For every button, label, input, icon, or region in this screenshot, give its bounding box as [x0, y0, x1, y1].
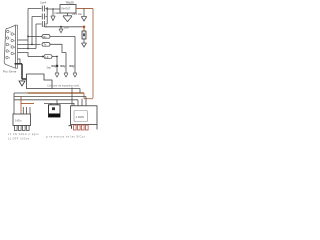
node dot at x53: [52, 8, 54, 10]
wire y88.5 extension: [52, 88, 80, 90]
display DS1 teeth (red): [74, 125, 89, 130]
svg-text:Pto·Serie: Pto·Serie: [3, 70, 17, 74]
connector X1 pin numbers: [9, 31, 16, 59]
resistor R1 lead (brown): [83, 27, 85, 31]
net tag wire row C: [28, 56, 44, 58]
wire DB9 pin row D jog: [18, 53, 29, 57]
wire thick gnd wire vertical: [21, 64, 23, 79]
ground under R1: [82, 43, 87, 47]
capacitor C1: [28, 6, 47, 12]
node brown junction dot: [83, 26, 86, 29]
ground arrow 3: [73, 73, 77, 77]
wire regulator output 5V (brown): [76, 8, 93, 10]
SW glyph: [52, 107, 55, 110]
component SW black box: [49, 105, 61, 117]
wire ground bus y27: [45, 26, 84, 28]
wire dark bus D1: [14, 92, 28, 94]
wire vertical drop 3: [74, 36, 76, 72]
node dot row A tag takeoff: [27, 36, 29, 38]
ground cap bank: [51, 16, 55, 21]
wire dark bus D3: [14, 99, 78, 101]
wire regulator input net: [47, 8, 60, 10]
regulator ground pin wire: [67, 13, 69, 16]
wire cap right plates join vertical: [46, 7, 48, 24]
wire x72 vertical to box2: [71, 88, 73, 106]
SW bottom band: [49, 114, 61, 118]
svg-text:14Dx: 14Dx: [15, 119, 22, 123]
node junction dot on y27: [60, 26, 62, 28]
wire DB9 pin row C: [18, 48, 37, 50]
display DS1 left step wire: [69, 126, 72, 129]
wire vertical drop 2: [65, 53, 67, 73]
op-amp regulator box U1: [60, 5, 76, 14]
net tag RXD: [42, 35, 50, 39]
ground arrow 1: [55, 73, 59, 77]
wire stub x80: [79, 89, 81, 94]
svg-text:g ne marcos de las SfCxx: g ne marcos de las SfCxx: [46, 135, 86, 138]
svg-text:Cym4: Cym4: [40, 1, 47, 4]
svg-text:1.R2W: 1.R2W: [76, 115, 85, 119]
svg-text:IN•OUT: IN•OUT: [62, 7, 71, 11]
display DS1 right edge drop: [96, 125, 98, 130]
net tag wire row A: [28, 35, 42, 37]
display box DS1 pins: [78, 97, 86, 106]
net tag TXD: [42, 43, 50, 47]
connector J1 pin stub 1 (brown): [20, 103, 22, 114]
display box DS1: [71, 106, 98, 125]
svg-text:J1 CN 34Gm p agun: J1 CN 34Gm p agun: [8, 133, 39, 136]
connector J1 box: [13, 114, 31, 126]
wire brown left corner: [21, 97, 34, 104]
svg-text:M1: M1: [44, 25, 48, 29]
node dot at x47: [46, 8, 48, 10]
SW pin stubs: [51, 100, 57, 105]
svg-text:Conector de expansion ww1: Conector de expansion ww1: [47, 83, 80, 87]
wire tag B jog: [50, 44, 66, 52]
svg-text:Rdy: Rdy: [52, 64, 57, 68]
wire tag A to vertical: [50, 35, 75, 37]
wire bus vertical from C2: [31, 17, 33, 45]
connector X1 pins column A: [6, 30, 9, 58]
wire bus vertical from C1: [27, 9, 29, 49]
wire thick gnd wire horizontal: [15, 63, 23, 65]
ground DB9 shield: [19, 80, 25, 87]
wire brown staircase: [84, 93, 93, 99]
ground regulator: [63, 16, 72, 22]
wire brown bus B1: [28, 92, 85, 94]
wire dark bus D2: [14, 96, 86, 98]
wire thick gnd wire to box: [22, 78, 27, 80]
svg-text:35M: 35M: [64, 25, 69, 29]
wire bus vertical from C3: [35, 24, 37, 49]
connector J1 pin stubs: [23, 107, 30, 114]
connector J1 teeth: [15, 126, 30, 131]
connector X1 DB9 body: [4, 25, 15, 68]
wire dark bus D4: [44, 103, 74, 105]
wire tag C to vertical: [52, 56, 57, 58]
node dot rowC x28: [27, 48, 29, 50]
resistor R1: [82, 31, 86, 39]
connector X1 pin strip: [16, 25, 18, 68]
ground arrow 2: [64, 73, 68, 77]
svg-text:78L05: 78L05: [66, 1, 75, 5]
node dot tagC-vertical1: [56, 56, 58, 58]
svg-text:Rdy: Rdy: [61, 64, 66, 68]
connector X1 pins column B: [11, 33, 13, 55]
node cap ground stem: [52, 9, 54, 16]
capacitor C2: [32, 14, 47, 20]
node dot row B: [31, 44, 33, 46]
wire 5V net down right edge (brown): [92, 9, 94, 99]
wire left edge vertical: [13, 93, 15, 114]
wire DB9 pin row E jog: [18, 59, 21, 64]
resistor R1 lead to ground: [83, 39, 85, 43]
wire DB9 pin row B: [18, 43, 41, 45]
node small dark mark: [56, 65, 58, 67]
wire vertical drop 1: [56, 57, 58, 73]
svg-text:11 OFF 23Cze: 11 OFF 23Cze: [8, 137, 30, 140]
component box with tab: [27, 74, 53, 89]
resistor R1 value mark: [83, 34, 85, 37]
display DS1 inner plate: [74, 111, 88, 122]
svg-text:+5V·Ua: +5V·Ua: [72, 12, 82, 16]
node dot row C: [42, 56, 44, 58]
supply arrow chevron: [81, 17, 86, 22]
wire DB9 pin row A: [18, 39, 29, 41]
supply arrow stem: [83, 9, 85, 17]
net tag L9B: [44, 55, 52, 59]
capacitor C3: [36, 21, 47, 27]
ground tap on y27: [59, 27, 63, 33]
svg-text:Rdy: Rdy: [70, 64, 75, 68]
svg-text:N1k: N1k: [55, 11, 61, 15]
